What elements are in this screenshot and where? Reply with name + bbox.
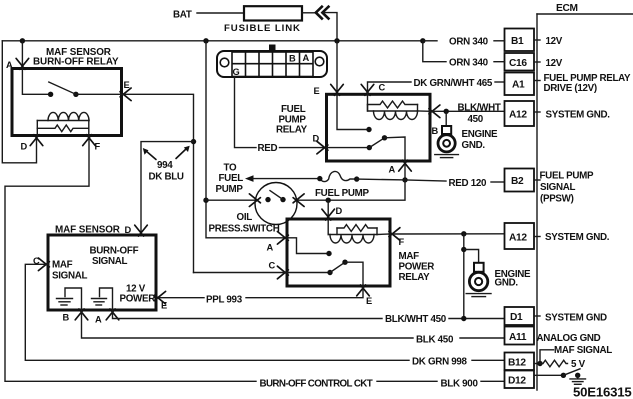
wire MAF SIGNAL branch [534, 363, 540, 365]
resistor fuel pump relay [368, 101, 418, 108]
svg-text:PUMP: PUMP [216, 184, 244, 195]
wire B+ drop to fuel pump relay E [336, 41, 338, 95]
svg-text:PRESS.SWITCH: PRESS.SWITCH [209, 224, 280, 235]
fusible link FL [244, 6, 302, 20]
wire BLK/WHT 450 to ECM A12 [430, 110, 505, 112]
svg-text:RED 120: RED 120 [449, 178, 488, 189]
terminal F burn-off relay [83, 135, 96, 146]
wire BAT feed [197, 12, 244, 14]
svg-text:A1: A1 [512, 80, 525, 91]
svg-text:SIGNAL: SIGNAL [52, 271, 88, 282]
connector pin A1 ECM [505, 73, 535, 96]
terminal E MAF sensor [155, 291, 166, 304]
terminal B MAF sensor [75, 309, 88, 320]
switch blade MAF power relay [330, 262, 345, 272]
connector pin B12 ECM [505, 353, 535, 371]
wire fuel pump relay A to junction [404, 161, 406, 180]
wire MAF sensor B to BLK 450 line [82, 310, 414, 338]
svg-text:A: A [6, 60, 13, 70]
wire TO FUEL PUMP with pump pigtail [245, 175, 254, 182]
resistor 5V pull-up [540, 360, 568, 367]
wire switch to E [76, 93, 122, 95]
wire ground chain drop [463, 234, 465, 319]
ground engine GND 1 [445, 111, 447, 126]
ground engine GND 2 [464, 250, 479, 263]
wire 994 branch to MAF sensor D [141, 142, 194, 235]
wire E to switch contact [337, 94, 369, 129]
svg-text:C: C [269, 261, 276, 271]
svg-text:994: 994 [157, 160, 173, 171]
svg-text:BURN-OFF RELAY: BURN-OFF RELAY [33, 57, 119, 68]
coil MAF power relay [327, 219, 329, 235]
relay K1 MAF SENSOR BURN-OFF RELAY box [12, 69, 122, 136]
svg-text:5 V: 5 V [571, 359, 586, 370]
wire MAF relay E to PPL 993 [246, 286, 363, 298]
node B+ top bus [2, 40, 423, 42]
svg-text:A11: A11 [509, 332, 527, 343]
svg-text:RED: RED [258, 143, 278, 154]
svg-text:DK GRN/WHT 465: DK GRN/WHT 465 [414, 78, 493, 89]
svg-text:SYSTEM GND.: SYSTEM GND. [546, 110, 611, 121]
ECM bracket [536, 14, 538, 390]
svg-text:SIGNAL: SIGNAL [92, 256, 128, 267]
wire oil switch line [206, 199, 257, 201]
svg-text:A: A [303, 53, 310, 63]
terminal A burn-off relay [16, 58, 29, 69]
svg-text:MAF SENSOR: MAF SENSOR [55, 225, 120, 236]
svg-text:E: E [366, 296, 372, 306]
wire chevron to B+ bus drop [323, 13, 337, 41]
svg-text:SYSTEM GND.: SYSTEM GND. [545, 232, 610, 243]
svg-text:D1: D1 [510, 312, 523, 323]
svg-text:FUEL PUMP: FUEL PUMP [540, 170, 594, 181]
svg-text:BAT: BAT [173, 10, 192, 21]
svg-text:BLK 900: BLK 900 [441, 379, 479, 390]
wire MAF sensor A to BLK/WHT 450 line [113, 310, 383, 319]
wire burn-off F to burn-off control line [5, 136, 256, 382]
resistor MAF power relay [337, 225, 377, 232]
svg-text:BLK 450: BLK 450 [416, 335, 454, 346]
svg-text:SYSTEM GND: SYSTEM GND [545, 313, 607, 324]
wire B+ drop to oil switch and MAF relay A [206, 41, 287, 238]
ground internal 2 MAF sensor [100, 288, 113, 310]
relay K2 FUEL PUMP RELAY box [327, 94, 431, 161]
wire ORN 340 to C16 [423, 41, 446, 62]
svg-text:ORN 340: ORN 340 [449, 37, 489, 48]
svg-text:D: D [313, 134, 320, 144]
svg-text:ORN 340: ORN 340 [449, 58, 489, 69]
terminal D MAF power relay [322, 209, 335, 220]
connector C100 block [217, 51, 327, 77]
wire RED from G to fuel pump relay D [235, 77, 257, 148]
terminal D burn-off relay [30, 135, 43, 146]
terminal E MAF power relay [357, 285, 370, 296]
svg-text:FUEL PUMP: FUEL PUMP [315, 188, 369, 199]
svg-text:B: B [289, 54, 296, 64]
svg-text:RELAY: RELAY [276, 125, 308, 136]
svg-text:RELAY: RELAY [399, 272, 431, 283]
svg-text:50E16315: 50E16315 [573, 385, 632, 399]
svg-text:A: A [267, 243, 274, 253]
wire MAF sensor C to DK GRN 998 line [25, 264, 409, 360]
wire MAF relay D drop [327, 200, 329, 219]
svg-text:C16: C16 [509, 58, 527, 69]
ground internal 1 MAF sensor [65, 288, 82, 310]
terminal C fuel pump relay [361, 84, 374, 95]
inline connector chevrons [316, 6, 330, 20]
switch S1 OIL PRESS.SWITCH [255, 183, 297, 225]
terminal A MAF power relay [277, 232, 288, 245]
connector pin B1 ECM [505, 29, 535, 52]
terminal F MAF power relay [389, 228, 400, 241]
svg-text:MAF: MAF [399, 251, 420, 262]
svg-text:D: D [21, 142, 28, 152]
wire A contact jog [287, 238, 329, 254]
switch blade D12 [563, 369, 580, 376]
terminal E burn-off relay [120, 88, 131, 101]
wire left bus drop to D loop [2, 41, 36, 163]
svg-text:MAF: MAF [52, 260, 73, 271]
switch contacts burn-off relay [48, 92, 53, 97]
svg-text:D: D [125, 225, 132, 235]
terminal A fuel pump relay [399, 160, 412, 171]
wire blade to A [385, 137, 406, 161]
wire RED 120 to ECM B2 [405, 180, 446, 181]
svg-text:BLK/WHT: BLK/WHT [458, 103, 501, 114]
svg-text:FUEL: FUEL [219, 173, 244, 184]
terminal A MAF sensor [106, 309, 119, 320]
svg-text:POWER: POWER [399, 262, 435, 273]
wire ORN 340 to B1 [423, 40, 437, 42]
svg-text:DK BLU: DK BLU [149, 171, 184, 182]
wire 994 DK BLU from E [122, 94, 194, 272]
relay K3 MAF POWER RELAY box [287, 219, 390, 286]
wire blade to E [345, 262, 363, 286]
svg-text:E: E [314, 86, 320, 96]
svg-text:E: E [124, 80, 130, 90]
resistor burn-off relay [37, 125, 89, 132]
wire D to switch pivot [327, 147, 370, 149]
terminal C MAF power relay [277, 266, 288, 279]
svg-text:BLK/WHT 450: BLK/WHT 450 [385, 314, 447, 325]
switch blade fuel pump relay [369, 138, 384, 148]
wire DK GRN/WHT 465 to ECM A1 [368, 82, 412, 94]
svg-text:(PPSW): (PPSW) [540, 193, 574, 204]
svg-text:A12: A12 [509, 233, 527, 244]
svg-text:F: F [95, 142, 101, 152]
svg-text:D12: D12 [508, 376, 526, 387]
svg-text:GND.: GND. [495, 278, 519, 289]
connector pin A12 second ECM [505, 223, 535, 249]
svg-text:BURN-OFF CONTROL CKT: BURN-OFF CONTROL CKT [260, 379, 373, 390]
svg-text:MAF SIGNAL: MAF SIGNAL [554, 345, 612, 356]
svg-text:B: B [63, 313, 70, 323]
svg-text:12V: 12V [546, 58, 563, 69]
svg-text:GND.: GND. [462, 140, 486, 151]
svg-text:DK GRN 998: DK GRN 998 [412, 357, 468, 368]
terminal B fuel pump relay [429, 105, 440, 118]
wire bus to burn-off relay A [21, 41, 23, 69]
terminal E fuel pump relay [331, 84, 344, 95]
svg-text:SIGNAL: SIGNAL [540, 182, 576, 193]
svg-text:OIL: OIL [237, 212, 253, 223]
svg-text:D: D [336, 206, 343, 216]
svg-text:A12: A12 [509, 110, 527, 121]
svg-text:B2: B2 [511, 176, 524, 187]
coil burn-off relay [37, 120, 89, 122]
connector pin D12 ECM [505, 371, 535, 389]
wire C to pivot [194, 272, 331, 274]
coil fuel pump relay [368, 94, 418, 111]
wire MAF relay F to ECM A12 second [392, 233, 505, 235]
svg-text:F: F [399, 237, 405, 247]
connector pin B2 ECM [505, 169, 535, 192]
wire D12 to switch [534, 374, 563, 376]
svg-text:FUEL: FUEL [281, 104, 306, 115]
connector pin A11 ECM [505, 327, 535, 345]
svg-text:POWER: POWER [120, 294, 156, 305]
svg-text:A: A [389, 165, 396, 175]
wire burn-off A to switch [22, 69, 50, 95]
svg-text:TO: TO [224, 163, 238, 174]
wire coil legs [36, 121, 38, 136]
svg-text:ECM: ECM [556, 3, 578, 14]
wire coil to terminal B exit [418, 110, 431, 112]
svg-text:B1: B1 [511, 36, 524, 47]
svg-text:B12: B12 [508, 358, 526, 369]
connector pin D1 ECM [505, 307, 535, 325]
sensor MAF SENSOR box [48, 235, 156, 310]
svg-text:PPL 993: PPL 993 [206, 295, 243, 306]
terminal C MAF sensor [38, 258, 49, 271]
svg-text:G: G [233, 67, 240, 77]
svg-text:ENGINE: ENGINE [462, 129, 499, 140]
svg-text:E: E [161, 301, 167, 311]
svg-text:ANALOG GND: ANALOG GND [537, 333, 601, 344]
ground D12 [577, 375, 579, 378]
connector pin A12 ECM [505, 101, 535, 126]
wire after fusible link [302, 12, 316, 14]
svg-text:A: A [95, 315, 102, 325]
svg-text:DRIVE (12V): DRIVE (12V) [544, 83, 597, 94]
svg-text:450: 450 [468, 114, 484, 125]
svg-text:C: C [379, 83, 386, 93]
connector pin C16 ECM [505, 53, 535, 71]
svg-text:BURN-OFF: BURN-OFF [90, 246, 139, 257]
terminal D MAF sensor [135, 225, 148, 236]
terminal D fuel pump relay [317, 141, 328, 154]
svg-text:12V: 12V [546, 36, 563, 47]
svg-text:FUSIBLE LINK: FUSIBLE LINK [224, 23, 301, 34]
svg-text:B: B [432, 126, 439, 136]
wire BURN-OFF CONTROL CKT / BLK 900 to ECM D12 [377, 380, 437, 382]
